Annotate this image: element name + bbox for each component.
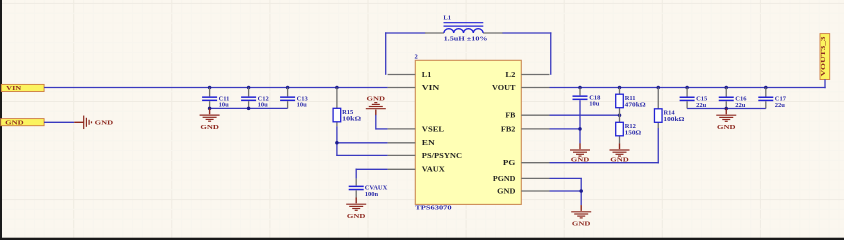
junction: [247, 86, 251, 90]
pin EN: [388, 142, 416, 144]
pin PS/PSYNC: [388, 154, 416, 156]
resistor R12 pins: [619, 115, 621, 122]
junction: [208, 86, 212, 90]
svg-text:100n: 100n: [365, 191, 379, 198]
junction: [286, 86, 290, 90]
ground (R12): [610, 143, 630, 163]
svg-text:10u: 10u: [589, 101, 600, 108]
svg-text:10u: 10u: [258, 102, 269, 109]
svg-text:100kΩ: 100kΩ: [663, 116, 684, 123]
junction: [657, 86, 661, 90]
ground GND (port): [74, 116, 113, 130]
junction: [335, 86, 339, 90]
wire PG to R14: [657, 128, 659, 163]
resistor R15: [333, 108, 361, 122]
svg-text:GND: GND: [347, 213, 366, 220]
svg-text:GND: GND: [367, 95, 386, 102]
pin VSEL: [388, 128, 416, 130]
wire output caps bottom: [687, 108, 766, 110]
resistor R14 pins: [657, 88, 659, 109]
capacitor CVAUX: [349, 179, 388, 198]
junction: [725, 86, 729, 90]
pin PGND: [521, 177, 549, 179]
pin L2: [521, 74, 549, 76]
wire VIN net: [44, 87, 388, 89]
ground (input caps): [200, 108, 220, 131]
ground (C18): [570, 143, 590, 163]
svg-text:GND: GND: [5, 121, 24, 127]
junction: [579, 189, 583, 193]
wire input caps bottom: [210, 107, 288, 109]
port GND: [1, 119, 44, 127]
pin PG: [521, 162, 549, 164]
svg-text:GND: GND: [95, 120, 114, 127]
junction: [618, 86, 622, 90]
svg-text:GND: GND: [497, 187, 515, 195]
svg-text:VOUT3_3: VOUT3_3: [820, 37, 827, 77]
wire VSEL: [375, 115, 377, 130]
svg-text:GND: GND: [200, 124, 219, 131]
capacitor C17: [758, 88, 786, 109]
svg-text:L2: L2: [505, 71, 516, 79]
svg-text:VIN: VIN: [422, 84, 440, 92]
svg-text:PS/PSYNC: PS/PSYNC: [422, 152, 462, 160]
ground (PGND): [571, 205, 591, 228]
svg-text:150Ω: 150Ω: [625, 130, 642, 137]
wire GND port to ground: [44, 121, 74, 123]
svg-text:L1: L1: [443, 15, 451, 22]
ground (output caps): [716, 109, 736, 132]
junction: [618, 113, 622, 117]
pin VIN: [388, 87, 416, 89]
pin FB2: [521, 128, 549, 130]
pin FB: [521, 114, 549, 116]
svg-text:GND: GND: [717, 124, 736, 131]
wire VOUT net: [550, 87, 826, 89]
wire R15 to EN / PS-PSYNC: [336, 126, 338, 155]
svg-text:L1: L1: [422, 71, 432, 79]
svg-text:1.5uH ±10%: 1.5uH ±10%: [444, 36, 488, 43]
ground GND (VSEL): [366, 95, 386, 115]
port VOUT3_3: [820, 34, 830, 80]
wire L1 right loop: [503, 32, 552, 34]
capacitor C18: [573, 88, 602, 108]
pin VAUX: [388, 168, 416, 170]
svg-text:10kΩ: 10kΩ: [342, 116, 361, 123]
svg-text:22u: 22u: [696, 102, 707, 109]
wire GND pin: [550, 190, 582, 192]
resistor R11: [616, 94, 646, 108]
wire L1 left loop: [385, 32, 387, 75]
junction: [247, 107, 251, 111]
svg-text:FB: FB: [505, 112, 515, 120]
port VIN: [1, 84, 44, 92]
capacitor C11: [202, 88, 229, 109]
junction: [578, 86, 582, 90]
pin VOUT: [521, 87, 549, 89]
junction: [578, 127, 582, 131]
svg-text:VOUT: VOUT: [492, 84, 516, 92]
svg-text:VAUX: VAUX: [422, 166, 445, 174]
svg-text:PG: PG: [503, 159, 516, 167]
svg-text:PGND: PGND: [493, 175, 516, 183]
junction: [685, 86, 689, 90]
junction: [725, 107, 729, 111]
svg-text:470kΩ: 470kΩ: [625, 101, 646, 108]
junction: [764, 86, 768, 90]
svg-text:FB2: FB2: [501, 125, 516, 133]
wire PGND: [550, 177, 582, 179]
svg-text:2: 2: [415, 53, 418, 60]
capacitor C13: [280, 88, 308, 109]
wire VAUX: [355, 169, 357, 179]
capacitor C15: [680, 88, 708, 109]
wire FB: [550, 114, 621, 116]
svg-text:EN: EN: [422, 139, 435, 147]
junction: [208, 107, 212, 111]
wire C18 to ground / FB2 node: [579, 100, 581, 143]
svg-text:10u: 10u: [219, 102, 230, 109]
pin L1: [388, 74, 416, 76]
svg-text:VSEL: VSEL: [422, 125, 445, 133]
svg-text:22u: 22u: [735, 102, 746, 109]
svg-text:10u: 10u: [297, 102, 308, 109]
capacitor C12: [241, 88, 269, 109]
inductor L1: [425, 15, 503, 43]
capacitor C16: [719, 88, 747, 109]
resistor R15 pins: [336, 88, 338, 109]
svg-text:GND: GND: [572, 221, 591, 228]
svg-text:VIN: VIN: [6, 86, 22, 92]
resistor R12: [616, 122, 642, 136]
resistor R14: [654, 109, 684, 123]
op-amp U2 TPS63070 IC body: [415, 53, 522, 211]
ground (CVAUX): [346, 198, 366, 221]
resistor R11 pins: [619, 88, 621, 95]
pin GND: [521, 190, 549, 192]
svg-text:22u: 22u: [775, 102, 786, 109]
junction: [335, 141, 339, 145]
svg-text:TPS63070: TPS63070: [415, 205, 452, 212]
